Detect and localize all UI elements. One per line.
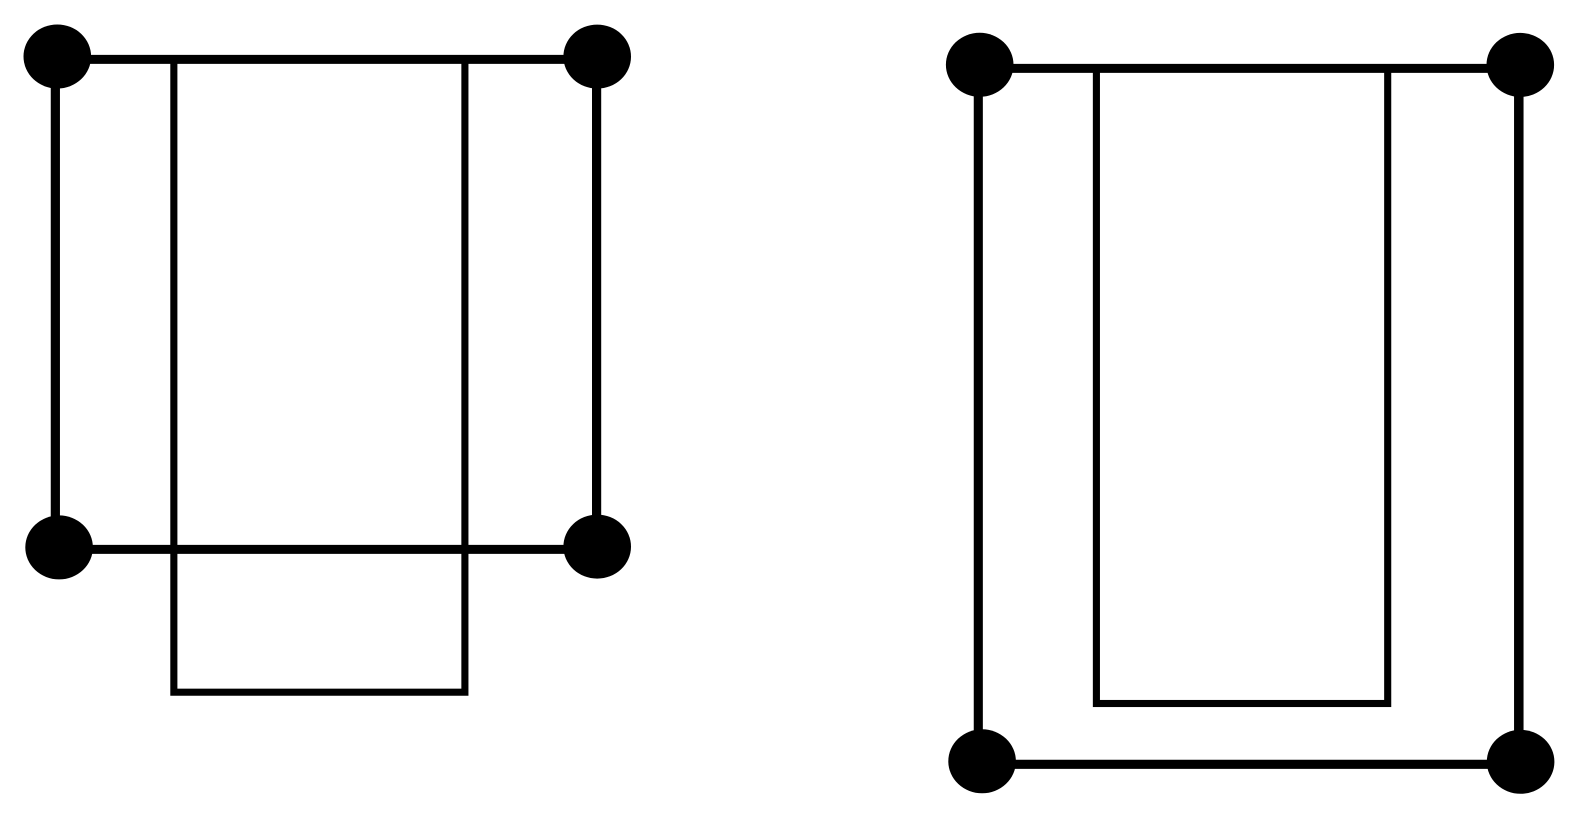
left graph: bottom edge wire v3-v4 <box>59 545 597 554</box>
left graph node v2 (top-right) <box>563 25 631 89</box>
left graph: right edge wire v2-v4 <box>592 57 601 547</box>
right graph node u3 (bottom-left) <box>948 729 1016 793</box>
right graph: bottom edge wire u3-u4 <box>982 760 1521 769</box>
right rectangle R2 <box>1096 68 1387 703</box>
left graph node v3 (bottom-left) <box>25 515 93 579</box>
left graph node v1 (top-left) <box>24 25 92 89</box>
left graph node v4 (bottom-right) <box>563 515 631 579</box>
right graph node u4 (bottom-right) <box>1487 730 1555 794</box>
right graph: top edge wire u1-u2 <box>980 64 1521 73</box>
right graph node u2 (top-right) <box>1487 33 1555 97</box>
left graph: left edge wire v1-v3 <box>51 57 60 548</box>
right graph: right edge wire u2-u4 <box>1514 65 1524 762</box>
right graph node u1 (top-left) <box>946 33 1014 97</box>
right graph: left edge wire u1-u3 <box>974 65 983 762</box>
left graph: top edge wire v1-v2 <box>57 55 597 64</box>
left rectangle R1 <box>174 59 465 692</box>
